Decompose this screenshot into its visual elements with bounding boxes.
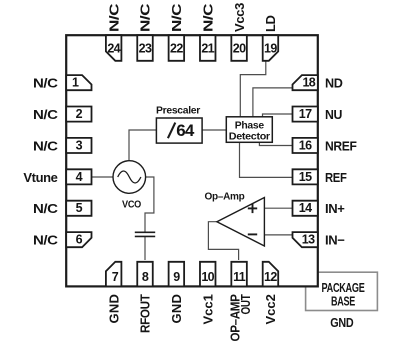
svg-text:GND: GND xyxy=(106,295,121,324)
svg-text:22: 22 xyxy=(170,41,183,55)
svg-text:3: 3 xyxy=(76,138,83,152)
wire pin4 Vtune to VCO xyxy=(92,176,113,178)
wire Phase Detector to pin16 NREF xyxy=(259,142,292,145)
svg-text:OUT: OUT xyxy=(238,294,253,314)
wire pin14 IN+ to op-amp + input xyxy=(264,207,292,209)
svg-text:17: 17 xyxy=(299,107,312,121)
pin 4 box xyxy=(66,169,91,184)
pin 13 box xyxy=(293,232,318,247)
svg-text:GND: GND xyxy=(330,315,353,330)
svg-text:VCO: VCO xyxy=(122,200,141,211)
pin 17 box xyxy=(293,107,318,122)
svg-text:10: 10 xyxy=(201,270,214,284)
svg-text:8: 8 xyxy=(142,270,149,284)
svg-text:7: 7 xyxy=(112,270,119,284)
svg-text:N/C: N/C xyxy=(200,3,215,32)
pin 10 box xyxy=(200,262,216,287)
pin 21 box xyxy=(200,35,216,61)
svg-text:N/C: N/C xyxy=(169,3,184,32)
pin 22 box xyxy=(169,35,185,61)
svg-text:Prescaler: Prescaler xyxy=(156,106,200,117)
pin 23 box xyxy=(137,35,153,61)
pin 14 box xyxy=(293,201,318,216)
svg-text:NU: NU xyxy=(325,107,342,122)
pin 8 box xyxy=(137,262,153,287)
wire VCO output to capacitor to pin8 RFOUT xyxy=(145,177,154,232)
svg-text:23: 23 xyxy=(139,41,152,55)
wire pin18 ND to Phase Detector top xyxy=(253,88,293,117)
svg-text:13: 13 xyxy=(302,233,315,247)
svg-text:RFOUT: RFOUT xyxy=(138,294,153,333)
svg-text:16: 16 xyxy=(299,138,312,152)
svg-text:6: 6 xyxy=(76,233,83,247)
op-amp U2 xyxy=(217,198,265,247)
svg-text:LD: LD xyxy=(263,15,278,32)
svg-text:Vtune: Vtune xyxy=(23,170,57,185)
chip body U1 outline xyxy=(66,35,318,286)
svg-text:N/C: N/C xyxy=(33,107,59,122)
capacitor C1 xyxy=(135,232,155,236)
pin 18 box xyxy=(293,75,318,90)
svg-text:2: 2 xyxy=(76,107,83,121)
pin 7 box xyxy=(106,262,122,287)
svg-text:1: 1 xyxy=(72,76,79,90)
svg-text:N/C: N/C xyxy=(106,3,121,32)
VCO oscillator symbol xyxy=(113,161,146,194)
svg-text:Vcc1: Vcc1 xyxy=(200,294,215,324)
pin 3 box xyxy=(66,138,91,153)
svg-text:Phase: Phase xyxy=(235,121,265,132)
pin 9 box xyxy=(169,262,185,287)
pin 2 box xyxy=(66,107,91,122)
svg-text:Vcc3: Vcc3 xyxy=(232,3,247,32)
svg-text:BASE: BASE xyxy=(331,294,355,309)
svg-text:18: 18 xyxy=(302,76,315,90)
pin 15 box xyxy=(293,169,318,184)
pin 19 box xyxy=(263,35,279,61)
svg-text:Vcc2: Vcc2 xyxy=(263,294,278,324)
svg-text:5: 5 xyxy=(76,201,83,215)
svg-text:20: 20 xyxy=(233,41,246,55)
wire Phase Detector bottom to pin15 REF xyxy=(240,142,293,177)
svg-text:ND: ND xyxy=(325,76,343,91)
svg-text:REF: REF xyxy=(325,170,347,185)
prescaler block /64 xyxy=(156,118,202,143)
svg-text:Detector: Detector xyxy=(229,132,270,143)
svg-text:GND: GND xyxy=(169,295,184,324)
package base box xyxy=(306,272,378,310)
pin 11 box xyxy=(231,262,247,287)
wire Prescaler output to Phase Detector input xyxy=(202,129,226,131)
pin 24 box xyxy=(106,35,122,61)
svg-text:14: 14 xyxy=(299,201,312,215)
pin 16 box xyxy=(293,138,318,153)
svg-text:9: 9 xyxy=(173,270,180,284)
pin 20 box xyxy=(231,35,247,61)
svg-text:4: 4 xyxy=(76,170,83,184)
svg-text:NREF: NREF xyxy=(325,139,357,154)
pin 6 box xyxy=(66,232,91,247)
wire VCO top to Prescaler input xyxy=(129,130,156,161)
pin 12 box xyxy=(263,262,279,287)
pin 5 box xyxy=(66,201,91,216)
svg-text:24: 24 xyxy=(107,41,120,55)
svg-text:64: 64 xyxy=(176,121,195,140)
svg-text:15: 15 xyxy=(299,170,312,184)
svg-text:N/C: N/C xyxy=(33,201,59,216)
svg-text:IN+: IN+ xyxy=(325,201,345,216)
phase detector block xyxy=(226,117,272,143)
svg-text:N/C: N/C xyxy=(33,139,59,154)
svg-text:21: 21 xyxy=(201,41,214,55)
svg-text:11: 11 xyxy=(233,270,246,284)
svg-text:19: 19 xyxy=(264,41,277,55)
svg-text:N/C: N/C xyxy=(33,233,59,248)
wire pin19 LD to Phase Detector top xyxy=(240,61,265,117)
wire Phase Detector to pin17 NU xyxy=(263,114,293,117)
svg-text:N/C: N/C xyxy=(33,76,59,91)
svg-text:IN−: IN− xyxy=(325,233,345,248)
wire capacitor to pin8 RFOUT xyxy=(144,236,146,260)
pin 1 box xyxy=(66,75,91,90)
svg-text:12: 12 xyxy=(264,270,277,284)
wire op-amp output to pin11 OP-AMP OUT xyxy=(208,222,238,260)
svg-text:N/C: N/C xyxy=(138,3,153,32)
svg-text:Op–Amp: Op–Amp xyxy=(205,191,245,202)
wire pin13 IN- to op-amp - input xyxy=(264,234,292,236)
